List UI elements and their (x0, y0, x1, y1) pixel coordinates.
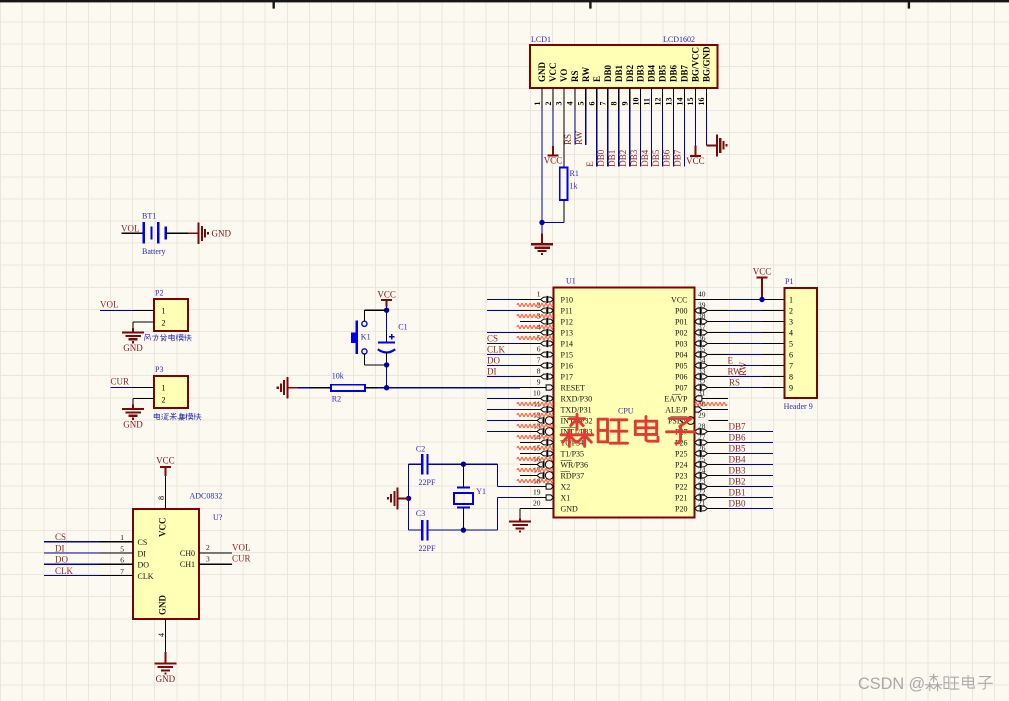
svg-text:GND: GND (537, 62, 547, 83)
svg-text:DB7: DB7 (673, 149, 683, 167)
error squiggle at U1 pin 4 (517, 326, 553, 329)
svg-text:P16: P16 (561, 361, 573, 370)
svg-text:DB6: DB6 (669, 64, 679, 82)
junction crystal top (461, 462, 466, 467)
svg-text:DB6: DB6 (662, 149, 672, 167)
svg-text:VO: VO (559, 69, 569, 82)
svg-text:12: 12 (653, 98, 662, 106)
svg-text:DB5: DB5 (729, 444, 747, 454)
svg-text:1: 1 (537, 289, 541, 298)
svg-text:2: 2 (162, 395, 166, 404)
svg-text:1: 1 (120, 533, 124, 542)
svg-text:DB0: DB0 (596, 149, 606, 167)
wire R1 bottom (563, 200, 565, 223)
svg-text:E: E (592, 76, 602, 82)
resistor R2 (331, 385, 365, 391)
svg-text:P02: P02 (675, 328, 687, 337)
svg-text:DB2: DB2 (625, 64, 635, 82)
error squiggle at U1 pin 13 (517, 425, 553, 428)
svg-text:RS: RS (563, 134, 573, 145)
svg-text:C3: C3 (416, 509, 425, 518)
svg-text:DI: DI (487, 367, 497, 377)
LCD pin 12 stub (662, 88, 664, 110)
svg-text:P10: P10 (561, 295, 573, 304)
svg-text:22PF: 22PF (419, 478, 436, 487)
svg-text:4: 4 (789, 329, 793, 338)
LCD pin 3 stub (563, 88, 565, 110)
svg-text:RS: RS (570, 70, 580, 82)
svg-text:22PF: 22PF (419, 544, 436, 553)
svg-text:CS: CS (55, 532, 66, 542)
svg-text:VCC: VCC (548, 63, 558, 83)
svg-text:GND: GND (157, 595, 167, 616)
wire LCD pin11 DB4 (651, 110, 653, 167)
svg-text:8: 8 (610, 102, 619, 106)
svg-text:3: 3 (555, 102, 564, 106)
wire LCD pin3 to R1 (563, 88, 565, 168)
svg-text:CLK: CLK (138, 572, 154, 581)
svg-text:1k: 1k (570, 182, 578, 191)
ground at P3 (132, 405, 134, 409)
LCD pin 4 stub (574, 88, 576, 110)
svg-text:Battery: Battery (142, 247, 166, 256)
error squiggle at U1 pin 18 (517, 480, 553, 483)
error squiggle at U1 pin 3 (517, 315, 553, 318)
svg-text:CS: CS (487, 334, 498, 344)
svg-text:P24: P24 (675, 460, 687, 469)
svg-text:14: 14 (675, 98, 684, 106)
svg-text:RXD/P30: RXD/P30 (561, 394, 593, 403)
connector P1 Header 9 (784, 288, 817, 398)
svg-text:GND: GND (123, 420, 143, 430)
wire top to X2 (497, 464, 499, 486)
svg-text:2: 2 (162, 318, 166, 327)
svg-text:VOL: VOL (100, 300, 119, 310)
wire LCD pin16 to ground (705, 110, 707, 145)
svg-text:VCC: VCC (753, 267, 772, 277)
svg-text:6: 6 (588, 102, 597, 106)
capacitor C1 polarized (378, 341, 395, 343)
svg-text:P15: P15 (561, 350, 573, 359)
wire to U1 pin 10 (487, 398, 520, 400)
svg-text:RESET: RESET (561, 383, 586, 392)
svg-text:P17: P17 (561, 372, 573, 381)
wire U1 to P1 row 2 (728, 310, 763, 312)
svg-text:6: 6 (120, 556, 124, 565)
svg-text:10k: 10k (332, 372, 344, 381)
svg-text:DO: DO (55, 555, 68, 565)
svg-text:CS: CS (138, 538, 148, 547)
sheet top border (0, 0, 1009, 2)
junction reset net (384, 385, 389, 390)
svg-text:BG/VCC: BG/VCC (691, 47, 701, 82)
wire to U1 pin 7 (487, 365, 520, 367)
svg-text:DB5: DB5 (651, 149, 661, 167)
wire to U1 pin 6 (487, 354, 520, 356)
wire LCD pin6 E (596, 110, 598, 167)
svg-text:7: 7 (537, 355, 541, 364)
wire DO to ADC (44, 563, 100, 565)
svg-text:DB4: DB4 (647, 64, 657, 82)
svg-text:VOL: VOL (232, 542, 251, 552)
wire U1 P23 DB3 (728, 475, 773, 477)
error squiggle at U1 pin 30 (695, 403, 727, 406)
svg-text:8: 8 (157, 496, 166, 500)
junction ground crystal (406, 496, 411, 501)
crystal Y1 (462, 464, 464, 487)
wire to U1 pin 2 (487, 310, 520, 312)
svg-text:DB1: DB1 (614, 64, 624, 82)
svg-text:BT1: BT1 (142, 212, 156, 221)
svg-text:R2: R2 (332, 395, 341, 404)
LCD pin 14 stub (683, 88, 685, 110)
wire U1 P21 DB1 (728, 497, 773, 499)
wire U1 to P1 row 8 (728, 376, 763, 378)
svg-text:VCC: VCC (156, 456, 175, 466)
svg-text:7: 7 (120, 567, 124, 576)
svg-text:8: 8 (537, 366, 541, 375)
svg-text:CUR: CUR (232, 554, 251, 564)
connector P3 (154, 376, 188, 408)
svg-text:GND: GND (561, 504, 579, 513)
svg-text:P11: P11 (561, 306, 573, 315)
svg-text:P13: P13 (561, 328, 573, 337)
wire to U1 pin 11 (487, 409, 520, 411)
svg-text:Header 9: Header 9 (784, 402, 813, 411)
LCD pin 9 stub (629, 88, 631, 110)
error squiggle at U1 pin 17 (517, 469, 553, 472)
wire U1 to P1 row 5 (728, 343, 763, 345)
junction VCC P1 (759, 297, 764, 302)
svg-text:U?: U? (213, 513, 223, 522)
svg-text:DB1: DB1 (607, 150, 617, 167)
wire U1 pin20 GND (520, 508, 554, 510)
resistor R1 (560, 168, 568, 201)
wire CUR to P3 pin1 (111, 387, 134, 389)
svg-text:VCC: VCC (377, 290, 396, 300)
svg-text:CUR: CUR (111, 377, 130, 387)
capacitor C3 (421, 520, 423, 541)
ground below LCD (541, 234, 543, 245)
wire to U1 pin 4 (487, 332, 520, 334)
svg-text:1: 1 (162, 307, 166, 316)
svg-text:40: 40 (698, 290, 706, 299)
svg-text:P07: P07 (675, 383, 687, 392)
svg-text:CPU: CPU (618, 407, 634, 416)
wire U1 P26 DB6 (728, 442, 773, 444)
mcu U1 body (554, 288, 695, 518)
error squiggle at U1 pin 15 (517, 447, 553, 450)
svg-text:DB7: DB7 (729, 422, 747, 432)
svg-text:DB6: DB6 (729, 433, 747, 443)
wire LCD pin7 DB0 (607, 110, 609, 167)
svg-text:R1: R1 (570, 169, 579, 178)
svg-text:T1/P35: T1/P35 (561, 449, 585, 458)
error squiggle at U1 pin 12 (517, 414, 553, 417)
LCD pin 2 stub (552, 88, 554, 110)
svg-text:X2: X2 (561, 482, 571, 491)
svg-text:CSDN @: CSDN @ (858, 675, 925, 693)
wire U1 to P1 row 4 (728, 332, 763, 334)
svg-text:4: 4 (566, 102, 575, 106)
svg-text:RW: RW (574, 130, 584, 145)
ground at ADC (164, 652, 166, 663)
svg-text:K1: K1 (361, 333, 371, 342)
svg-text:P3: P3 (155, 365, 163, 374)
svg-text:E: E (585, 161, 595, 167)
svg-text:E: E (728, 356, 734, 366)
LCD pin 6 stub (596, 88, 598, 110)
svg-text:TXD/P31: TXD/P31 (561, 405, 592, 414)
svg-text:9: 9 (789, 384, 793, 393)
wire LCD pin13 DB6 (673, 110, 675, 167)
svg-text:CH1: CH1 (180, 560, 195, 569)
svg-text:DB0: DB0 (603, 64, 613, 82)
wire to U1 pin 13 (487, 431, 520, 433)
svg-text:P03: P03 (675, 339, 687, 348)
wire VOL to battery (122, 232, 144, 234)
svg-text:15: 15 (686, 98, 695, 106)
wire U1 to P1 row 1 (728, 299, 763, 301)
svg-text:CLK: CLK (487, 345, 506, 355)
svg-text:5: 5 (120, 545, 124, 554)
LCD pin 1 stub (541, 88, 543, 110)
svg-text:2: 2 (789, 307, 793, 316)
svg-text:5: 5 (577, 102, 586, 106)
LCD pin 8 stub (618, 88, 620, 110)
svg-text:11: 11 (642, 98, 651, 106)
svg-text:P12: P12 (561, 317, 573, 326)
wire LCD pin8 DB1 (618, 110, 620, 167)
svg-text:P23: P23 (675, 471, 687, 480)
watermark Chinese red text (561, 414, 593, 446)
svg-text:BG/GND: BG/GND (702, 46, 712, 82)
svg-text:8: 8 (789, 373, 793, 382)
wire C1 to bottom junction (386, 353, 388, 365)
wire dot to ground below LCD (541, 223, 543, 234)
junction VCC K1 C1 (384, 308, 389, 313)
wire to U1 pin 1 (487, 299, 520, 301)
svg-text:RW: RW (738, 361, 748, 376)
ground at R2 (287, 387, 298, 389)
connector P2 (154, 299, 188, 331)
wire VCC junction down to C1 (386, 310, 388, 332)
svg-text:5: 5 (789, 340, 793, 349)
ground at U1 pin20 (519, 519, 521, 522)
svg-text:DB3: DB3 (729, 466, 747, 476)
svg-text:7: 7 (789, 362, 793, 371)
svg-text:DI: DI (138, 550, 147, 559)
svg-text:GND: GND (156, 674, 176, 684)
svg-text:LCD1: LCD1 (531, 35, 551, 44)
svg-text:P20: P20 (675, 504, 687, 513)
svg-text:VCC: VCC (686, 156, 705, 166)
svg-text:DB0: DB0 (729, 499, 747, 509)
LCD pin 5 stub (585, 88, 587, 110)
svg-text:P21: P21 (675, 493, 687, 502)
wire LCD pin12 DB5 (662, 110, 664, 167)
wire U1 P22 DB2 (728, 486, 773, 488)
LCD pin 11 stub (651, 88, 653, 110)
svg-text:16: 16 (697, 98, 706, 106)
wire LCD pin15 to VCC (694, 110, 696, 146)
pushbutton K1 (362, 321, 367, 326)
svg-text:DB3: DB3 (629, 149, 639, 167)
power VCC at LCD pin15 (694, 146, 696, 157)
svg-text:9: 9 (537, 377, 541, 386)
svg-text:P14: P14 (561, 339, 573, 348)
svg-text:U1: U1 (566, 277, 576, 286)
svg-text:C1: C1 (398, 323, 407, 332)
svg-text:13: 13 (664, 98, 673, 106)
LCD pin 7 stub (607, 88, 609, 110)
plus sign of C1 (389, 336, 394, 338)
wire ground to R2 (298, 387, 310, 389)
svg-text:DO: DO (138, 561, 150, 570)
junction crystal bottom (461, 527, 466, 532)
connector LCD1 LCD1602 (530, 45, 718, 88)
wire R2 to RESET pin (365, 387, 377, 389)
svg-text:GND: GND (123, 343, 143, 353)
error squiggle at U1 pin 5 (517, 337, 553, 340)
svg-text:DB4: DB4 (640, 149, 650, 167)
svg-text:DI: DI (55, 544, 65, 554)
wire U1 P24 DB4 (728, 464, 773, 466)
wire LCD pin9 DB2 (629, 110, 631, 167)
capacitor C2 (421, 454, 423, 475)
svg-text:P04: P04 (675, 350, 687, 359)
svg-text:EA/VP: EA/VP (664, 394, 688, 403)
svg-text:7: 7 (599, 102, 608, 106)
comment wind power module (Chinese) (144, 334, 150, 340)
wire U1 to P1 row 7 (728, 365, 763, 367)
adc U2 body ADC0832 (133, 509, 199, 619)
svg-text:10: 10 (631, 98, 640, 106)
svg-text:19: 19 (533, 487, 541, 496)
svg-text:VCC: VCC (157, 518, 167, 538)
svg-text:1: 1 (162, 384, 166, 393)
wire U1 P20 DB0 (728, 508, 773, 510)
svg-text:10: 10 (533, 388, 541, 397)
wire LCD pin10 DB3 (640, 110, 642, 167)
svg-text:VOL: VOL (121, 223, 140, 233)
svg-text:GND: GND (212, 229, 232, 239)
svg-text:DB1: DB1 (729, 488, 746, 498)
svg-text:P05: P05 (675, 361, 687, 370)
wire P3 pin2 to ground (133, 398, 154, 400)
wire junction to K1 top (364, 309, 386, 311)
svg-text:6: 6 (789, 351, 793, 360)
wire LCD pin5 RW (585, 110, 587, 145)
svg-text:P2: P2 (155, 289, 163, 298)
comment current sampling module (Chinese) (154, 413, 160, 419)
LCD pin 10 stub (640, 88, 642, 110)
svg-text:4: 4 (157, 633, 166, 637)
error squiggle at U1 pin 2 (517, 304, 553, 307)
svg-text:2: 2 (206, 543, 210, 552)
ground at P2 (132, 328, 134, 332)
wire battery to ground (166, 232, 188, 234)
svg-text:2: 2 (544, 102, 553, 106)
svg-text:DB4: DB4 (729, 455, 747, 465)
svg-text:1: 1 (789, 296, 793, 305)
junction at LCD GND net (539, 220, 544, 225)
wire LCD pin1 GND net (541, 110, 543, 223)
svg-text:P22: P22 (675, 482, 687, 491)
svg-text:6: 6 (537, 344, 541, 353)
svg-text:P06: P06 (675, 372, 687, 381)
wire to U1 pin 12 (487, 420, 520, 422)
left vertical wire C2 C3 (408, 464, 410, 530)
ground at LCD pin16 (706, 144, 717, 146)
svg-text:P1: P1 (785, 277, 793, 286)
wire to U1 pin 5 (487, 343, 520, 345)
wire K1 bottom to junction (363, 354, 365, 365)
wire U1 P27 DB7 (728, 431, 773, 433)
svg-text:DB2: DB2 (618, 150, 628, 167)
svg-text:DB5: DB5 (658, 64, 668, 82)
svg-text:9: 9 (620, 102, 629, 106)
wire LCD pin4 RS (574, 110, 576, 145)
wire LCD pin14 DB7 (683, 110, 685, 167)
svg-text:VCC: VCC (544, 156, 563, 166)
wire crystal bottom net (409, 529, 421, 531)
svg-text:DB3: DB3 (636, 64, 646, 82)
svg-text:RS: RS (729, 378, 740, 388)
LCD pin 15 stub (694, 88, 696, 110)
svg-text:X1: X1 (561, 493, 571, 502)
svg-text:C2: C2 (416, 445, 425, 454)
svg-text:P00: P00 (675, 306, 687, 315)
wire to U1 pin 8 (487, 376, 520, 378)
svg-text:20: 20 (533, 498, 541, 507)
svg-text:3: 3 (789, 318, 793, 327)
error squiggle at U1 pin 16 (517, 458, 553, 461)
wire VCC to junction (386, 306, 388, 310)
wire U1 to P1 row 3 (728, 321, 763, 323)
wire bottom to X1 (497, 498, 499, 531)
wire VOL to P2 pin1 (100, 310, 133, 312)
svg-text:LCD1602: LCD1602 (663, 35, 695, 44)
battery BT1 (143, 222, 145, 244)
wire DI to ADC (44, 552, 100, 554)
svg-text:WR/P36: WR/P36 (561, 460, 589, 469)
svg-text:DB2: DB2 (729, 477, 746, 487)
junction K1 C1 bottom (384, 362, 389, 367)
ground at battery (188, 232, 199, 234)
svg-text:RW: RW (581, 67, 591, 82)
svg-text:29: 29 (698, 411, 706, 420)
svg-text:RDP37: RDP37 (561, 471, 585, 480)
wire U1 to P1 row 6 (728, 354, 763, 356)
wire U1 P25 DB5 (728, 453, 773, 455)
svg-text:CH0: CH0 (180, 549, 195, 558)
svg-text:3: 3 (206, 554, 210, 563)
svg-text:CLK: CLK (55, 566, 74, 576)
wire U1 to P1 row 9 (728, 387, 763, 389)
wire CLK to ADC (44, 574, 100, 576)
svg-text:DB7: DB7 (680, 64, 690, 82)
svg-text:ADC0832: ADC0832 (190, 492, 223, 501)
error squiggle at U1 pin 11 (517, 403, 553, 406)
wire P2 pin2 to ground (133, 321, 154, 323)
LCD pin 16 stub (705, 88, 707, 110)
svg-text:ALE/P: ALE/P (665, 405, 688, 414)
svg-text:Y1: Y1 (476, 487, 486, 496)
svg-text:1: 1 (533, 102, 542, 106)
wire bottom junction to reset wire (386, 365, 388, 388)
error squiggle at U1 pin 14 (517, 436, 553, 439)
